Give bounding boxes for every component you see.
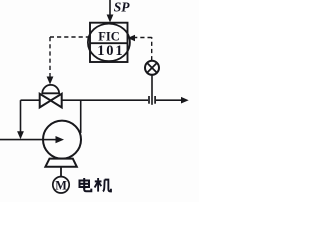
- wire discharge horizontal (valve to orifice): [62, 99, 149, 101]
- pump P1 circle: [43, 121, 81, 159]
- arrowhead into FIC top: [107, 15, 114, 23]
- svg-text:101: 101: [97, 43, 124, 59]
- glyph 机: [95, 178, 111, 192]
- wire motor shaft stem: [60, 167, 62, 177]
- dashed signal: controller output to valve (vertical drop): [49, 37, 51, 77]
- arrowhead into FIC right edge: [128, 35, 136, 41]
- svg-text:SP: SP: [114, 0, 131, 15]
- controller U1 FIC-101 square: [90, 23, 128, 62]
- arrowhead onto valve actuator: [47, 77, 54, 85]
- wire SP input vertical line: [109, 0, 111, 16]
- wire recirculation vertical drop: [20, 100, 22, 133]
- svg-text:M: M: [55, 178, 67, 192]
- motor M circle: [53, 177, 69, 193]
- arrowhead inside pump: [43, 139, 56, 141]
- divider line inside FIC box: [90, 42, 128, 44]
- label 电机 (drawn glyphs): [80, 178, 111, 192]
- dashed signal: sensor to controller (horizontal): [134, 37, 152, 39]
- controller FIC-101 circle: [88, 24, 130, 62]
- svg-text:FIC: FIC: [98, 30, 120, 44]
- wire suction line: [0, 139, 56, 141]
- valve V1 actuator dome: [42, 85, 59, 93]
- valve V1 body bowtie: [40, 94, 62, 108]
- dashed signal: sensor to controller (vertical): [151, 37, 153, 60]
- flow sensor B1 circle-X: [145, 61, 159, 75]
- wire recirculation top horizontal (left of valve): [21, 99, 41, 101]
- arrowhead outlet right: [181, 97, 189, 104]
- arrowhead onto suction line: [17, 131, 24, 139]
- wire discharge vertical from pump: [80, 100, 82, 133]
- pump base trapezoid: [45, 159, 76, 167]
- glyph 电: [80, 178, 92, 191]
- wire outlet pipe right: [156, 99, 182, 101]
- dashed signal: controller output to valve (horizontal): [50, 36, 90, 38]
- orifice tick left: [148, 96, 150, 104]
- orifice tick right: [154, 96, 156, 104]
- wire sensor tap vertical: [151, 75, 153, 105]
